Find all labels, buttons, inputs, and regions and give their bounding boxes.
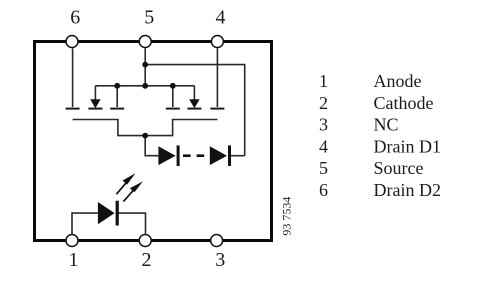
svg-text:Drain D2: Drain D2 (374, 180, 441, 200)
svg-text:5: 5 (144, 7, 154, 29)
svg-text:Cathode: Cathode (374, 93, 434, 113)
svg-text:Anode: Anode (374, 71, 422, 91)
svg-text:3: 3 (319, 115, 328, 135)
svg-text:1: 1 (69, 249, 79, 271)
svg-text:1: 1 (319, 71, 328, 91)
svg-text:4: 4 (319, 136, 328, 156)
svg-text:2: 2 (319, 93, 328, 113)
svg-text:4: 4 (216, 7, 226, 29)
svg-text:NC: NC (374, 115, 399, 135)
svg-text:2: 2 (142, 249, 152, 271)
svg-text:6: 6 (319, 180, 328, 200)
svg-text:Drain D1: Drain D1 (374, 136, 441, 156)
svg-text:6: 6 (70, 7, 80, 29)
svg-text:93 7534: 93 7534 (279, 197, 293, 236)
svg-text:3: 3 (215, 249, 225, 271)
svg-text:Source: Source (374, 158, 424, 178)
svg-text:5: 5 (319, 158, 328, 178)
